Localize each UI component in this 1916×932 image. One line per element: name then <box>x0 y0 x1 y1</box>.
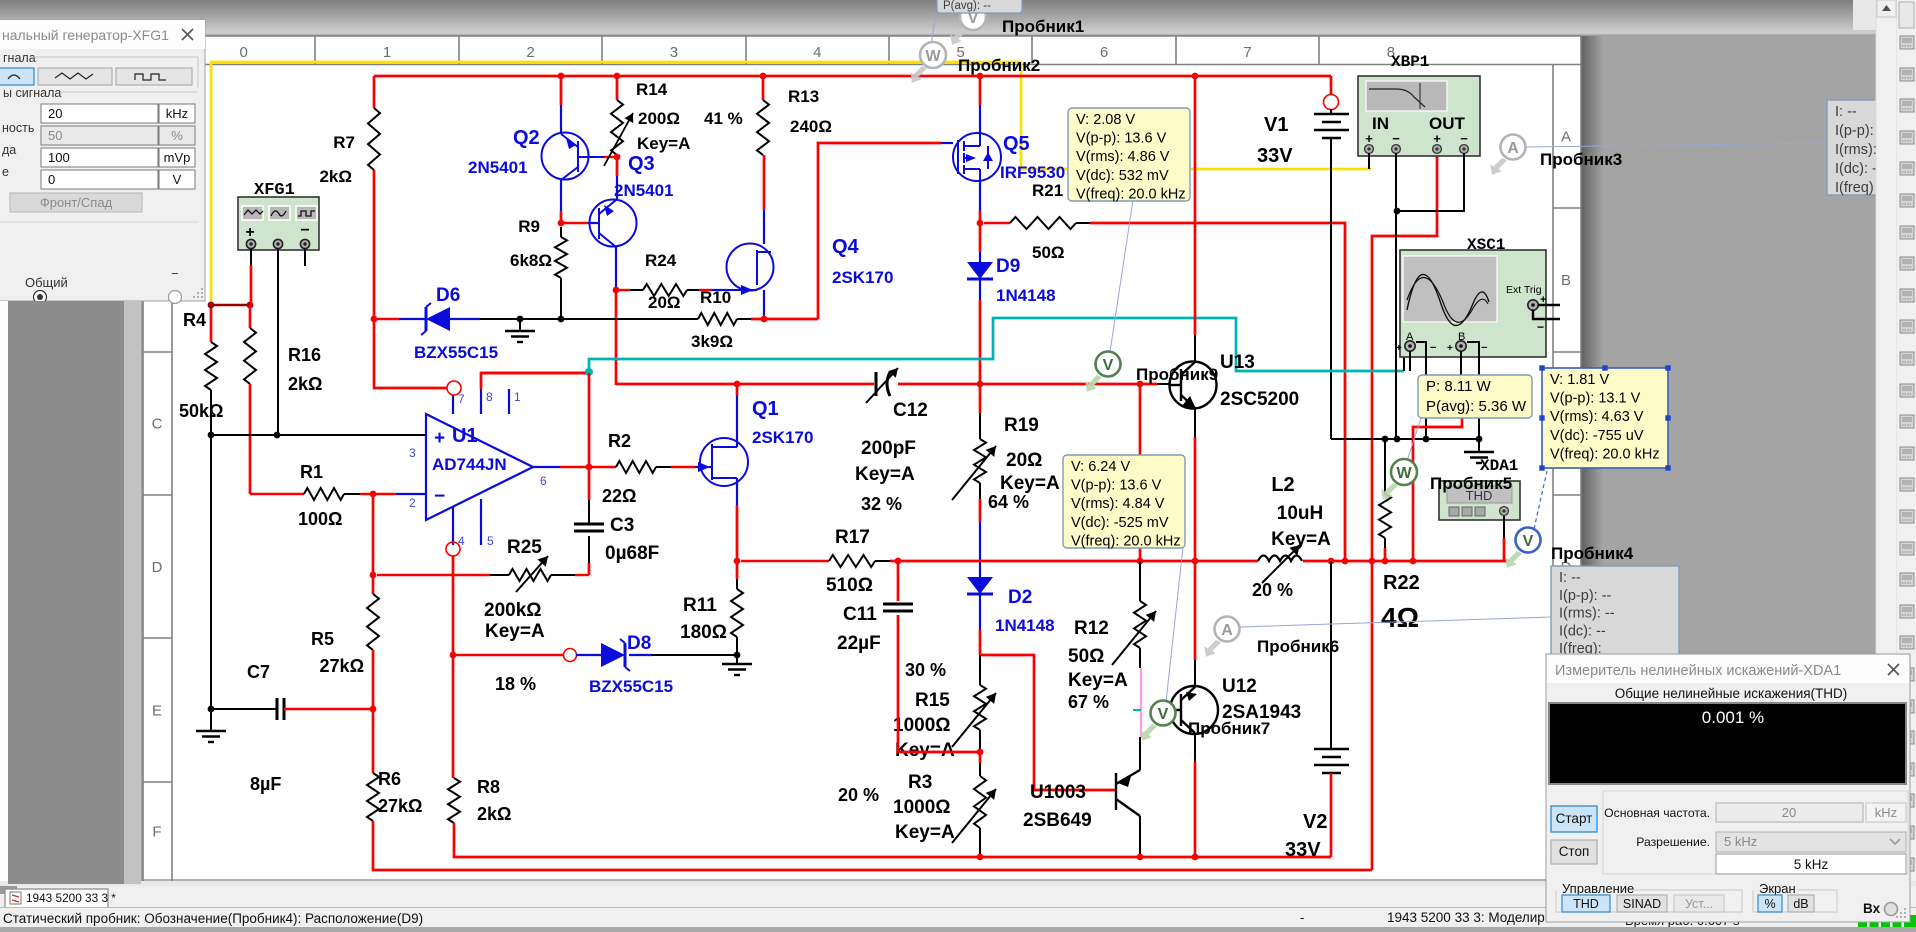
node dots on R17 row <box>1137 558 1144 565</box>
svg-text:0µ68F: 0µ68F <box>605 543 659 564</box>
svg-text:20: 20 <box>48 106 62 121</box>
svg-text:R9: R9 <box>518 217 540 236</box>
svg-text:Key=A: Key=A <box>1068 670 1128 691</box>
svg-text:C: C <box>152 415 163 432</box>
svg-text:Пробник6: Пробник6 <box>1257 637 1339 656</box>
capacitor C7 8uF <box>208 706 215 713</box>
svg-text:5 kHz: 5 kHz <box>1794 857 1829 872</box>
svg-text:mVp: mVp <box>164 150 191 165</box>
svg-text:Измеритель нелинейных искажени: Измеритель нелинейных искажений-XDA1 <box>1555 663 1841 679</box>
battery V1 33V <box>1330 76 1333 95</box>
wire Q2 emitter down to R9 <box>560 180 562 211</box>
svg-text:0: 0 <box>48 172 55 187</box>
leader line probe7 to box <box>1166 547 1183 702</box>
svg-text:2N5401: 2N5401 <box>614 181 674 200</box>
leader line probe9 <box>1110 200 1133 352</box>
svg-text:A: A <box>1221 622 1233 639</box>
svg-text:I: --: I: -- <box>1559 570 1581 586</box>
wire pin2 <box>373 493 396 495</box>
svg-text:−: − <box>1460 131 1468 146</box>
svg-text:V(dc): -525 mV: V(dc): -525 mV <box>1071 515 1169 531</box>
svg-text:Экран: Экран <box>1759 881 1796 896</box>
svg-text:1000Ω: 1000Ω <box>893 797 951 818</box>
pin 7 terminal ring <box>447 381 461 395</box>
leader line probe6 <box>1240 617 1551 627</box>
svg-text:+: + <box>1433 131 1441 146</box>
svg-text:1: 1 <box>383 44 391 61</box>
svg-text:Пробник4: Пробник4 <box>1551 544 1634 563</box>
svg-text:3k9Ω: 3k9Ω <box>691 332 733 351</box>
svg-text:−: − <box>1392 131 1400 146</box>
zener D6 BZX55C15 <box>371 316 378 323</box>
svg-text:U13: U13 <box>1220 352 1255 373</box>
svg-text:3: 3 <box>670 44 678 61</box>
svg-text:R24: R24 <box>645 251 677 270</box>
svg-text:Q5: Q5 <box>1003 133 1030 155</box>
svg-text:V: 1.81 V: V: 1.81 V <box>1550 372 1609 388</box>
svg-text:+: + <box>434 428 445 449</box>
svg-text:8: 8 <box>486 390 493 404</box>
svg-text:да: да <box>2 143 16 157</box>
svg-text:67 %: 67 % <box>1068 692 1109 712</box>
resistor R15 1000 variable <box>979 655 981 685</box>
wire XSC1 B+ red loop <box>1460 351 1462 377</box>
node Q1 drain <box>734 381 741 388</box>
svg-text:V2: V2 <box>1303 811 1327 833</box>
svg-text:A: A <box>1507 140 1519 157</box>
svg-text:R8: R8 <box>477 777 500 797</box>
svg-text:2SC5200: 2SC5200 <box>1220 389 1299 410</box>
svg-text:I(dc): -: I(dc): - <box>1835 161 1877 177</box>
svg-text:D: D <box>152 559 163 576</box>
svg-text:P(avg): --: P(avg): -- <box>943 0 991 12</box>
status meter green bars <box>1858 922 1867 927</box>
svg-text:Q2: Q2 <box>513 127 540 149</box>
transistor U1003 2SB649 <box>1116 770 1140 816</box>
node maroon left <box>208 302 215 309</box>
svg-text:R13: R13 <box>788 87 819 106</box>
probe Probnik6 A <box>1204 640 1221 657</box>
svg-text:B: B <box>1561 272 1571 289</box>
resistor R22 4ohm <box>1384 439 1386 494</box>
probe Probnik2 W <box>910 66 927 83</box>
svg-text:1N4148: 1N4148 <box>995 616 1055 635</box>
wire XFG1 common lead <box>277 249 279 435</box>
svg-text:1943 5200 33 3 *: 1943 5200 33 3 * <box>26 891 116 905</box>
svg-text:18 %: 18 % <box>495 674 536 694</box>
svg-text:2kΩ: 2kΩ <box>319 167 352 186</box>
top ruler column numbers <box>171 36 173 65</box>
node XBP1 out <box>1394 208 1401 215</box>
svg-text:6: 6 <box>1100 44 1108 61</box>
mosfet Q5 IRF9530 <box>953 133 1001 181</box>
svg-text:−: − <box>171 266 179 281</box>
svg-text:33V: 33V <box>1285 839 1321 861</box>
svg-text:R10: R10 <box>700 288 731 307</box>
svg-text:V(p-p): 13.6 V: V(p-p): 13.6 V <box>1071 478 1162 494</box>
svg-text:20 %: 20 % <box>838 785 879 805</box>
resistor R10 <box>561 318 698 320</box>
svg-text:Стоп: Стоп <box>1559 844 1590 859</box>
svg-text:20Ω: 20Ω <box>648 293 681 312</box>
svg-text:Пробник2: Пробник2 <box>958 56 1040 75</box>
svg-text:P: 8.11 W: P: 8.11 W <box>1426 378 1492 395</box>
ground G4 under R11 <box>736 655 738 664</box>
transistor Q1 2SK170 JFET <box>700 438 748 486</box>
svg-text:−: − <box>1537 320 1544 334</box>
svg-text:Key=A: Key=A <box>1000 473 1060 494</box>
svg-text:Key=A: Key=A <box>1271 529 1331 550</box>
node Q2-Q3 <box>558 220 565 227</box>
svg-text:0: 0 <box>240 44 248 61</box>
svg-text:C7: C7 <box>247 662 270 682</box>
vertical scrollbar <box>1876 0 1897 884</box>
svg-text:R12: R12 <box>1074 618 1109 639</box>
node R14 Q2 Q3 <box>614 154 621 161</box>
capacitor C3 0u68F <box>574 523 604 526</box>
probe Probnik4 V selected <box>1505 551 1522 568</box>
wire Q1 source <box>736 478 738 505</box>
zener D8 BZX55C15 <box>450 652 457 659</box>
op-amp U1 AD744JN <box>426 389 533 545</box>
svg-text:−: − <box>1481 342 1487 354</box>
wire U1003 emitter <box>1139 816 1141 857</box>
probe Probnik9 V green <box>1085 375 1102 392</box>
diode D2 1N4148 <box>979 522 981 577</box>
svg-text:Key=A: Key=A <box>855 464 915 485</box>
node Q3 R24 <box>613 287 620 294</box>
probe Probnik3 A <box>1490 158 1507 175</box>
node dots top bus <box>558 73 565 80</box>
svg-text:64 %: 64 % <box>988 492 1029 512</box>
svg-text:7: 7 <box>458 392 465 406</box>
side ruler row letters <box>143 207 172 209</box>
callout box V 6.24 <box>1063 455 1185 548</box>
svg-text:C12: C12 <box>893 400 928 421</box>
wire R4 R16 node <box>210 303 213 342</box>
svg-text:AD744JN: AD744JN <box>432 455 507 474</box>
node R25 row <box>370 572 377 579</box>
svg-text:Пробник1: Пробник1 <box>1002 17 1084 36</box>
wire Q3 node down to row C <box>615 290 618 385</box>
svg-text:Общий: Общий <box>25 275 68 290</box>
svg-text:Пробник7: Пробник7 <box>1188 719 1270 738</box>
wire R7 column <box>373 76 376 108</box>
svg-text:L2: L2 <box>1271 474 1294 496</box>
wire XBP1 OUT- elbow <box>1397 153 1464 211</box>
svg-text:Q1: Q1 <box>752 398 779 420</box>
dialog XFG1 signal generator <box>0 20 205 304</box>
svg-text:C3: C3 <box>610 515 634 536</box>
resistor R14 variable <box>616 76 619 100</box>
svg-text:2kΩ: 2kΩ <box>288 374 322 394</box>
wire Q3 base link <box>563 222 588 224</box>
callout box V 2.08 <box>1068 108 1190 201</box>
svg-text:50Ω: 50Ω <box>1068 646 1104 667</box>
callout box I probe6 <box>1551 566 1679 655</box>
wire pink selected segment <box>1140 668 1142 737</box>
canvas bottom strip <box>0 881 1916 886</box>
svg-text:R2: R2 <box>608 431 631 451</box>
leader line probe5 <box>1407 418 1421 461</box>
svg-text:Вх: Вх <box>1863 901 1881 916</box>
resistor R9 <box>560 227 562 237</box>
node pin3 row left <box>208 432 215 439</box>
wire XSC1 A- to ground <box>1416 342 1426 439</box>
svg-text:510Ω: 510Ω <box>826 575 873 596</box>
svg-text:%: % <box>171 128 183 143</box>
wire Q2 column top <box>560 76 563 105</box>
dialog XDA1 distortion analyzer <box>1546 654 1910 922</box>
svg-text:32 %: 32 % <box>861 494 902 514</box>
svg-text:V(rms): 4.84 V: V(rms): 4.84 V <box>1071 496 1165 512</box>
svg-text:4: 4 <box>813 44 821 61</box>
svg-text:U12: U12 <box>1222 676 1257 697</box>
svg-text:−: − <box>434 486 445 507</box>
wire XSC1 A+ stub <box>1409 351 1411 371</box>
svg-text:ность: ность <box>2 121 34 135</box>
node R15 R3 <box>977 749 984 756</box>
svg-text:D8: D8 <box>627 633 651 654</box>
svg-text:0.001 %: 0.001 % <box>1702 708 1764 727</box>
resistor R1 100 <box>250 493 304 495</box>
wire Q5 drain top <box>979 76 982 105</box>
wire C3 column <box>588 563 591 575</box>
svg-text:V: V <box>173 172 182 187</box>
yellow wire from XFG1 to XBP1 IN+ <box>211 62 1371 303</box>
svg-text:240Ω: 240Ω <box>790 117 832 136</box>
wire U13 base stub <box>1157 383 1170 385</box>
svg-text:R25: R25 <box>507 537 542 558</box>
svg-text:200kΩ: 200kΩ <box>484 600 542 621</box>
node dots ground row <box>1382 436 1389 443</box>
svg-text:5: 5 <box>487 534 494 548</box>
svg-text:+: + <box>245 224 254 241</box>
svg-text:A: A <box>1561 128 1571 145</box>
svg-text:kHz: kHz <box>1875 805 1897 820</box>
node R9 bottom <box>558 316 565 323</box>
svg-text:200pF: 200pF <box>861 438 916 459</box>
node maroon right <box>247 302 254 309</box>
resistor R3 1000 variable <box>979 752 982 763</box>
wire D2 to U1003 base <box>980 655 1116 790</box>
svg-text:2: 2 <box>409 496 416 510</box>
svg-text:2N5401: 2N5401 <box>468 158 528 177</box>
transistor U12 2SA1943 <box>1194 561 1197 660</box>
pin 4 ring <box>446 542 460 556</box>
wire inverting column <box>372 494 375 577</box>
svg-text:V(freq): 20.0 kHz: V(freq): 20.0 kHz <box>1076 186 1186 202</box>
svg-text:5 kHz: 5 kHz <box>1724 834 1757 849</box>
inductor L2 variable <box>1258 556 1302 562</box>
svg-text:Key=A: Key=A <box>895 822 955 843</box>
svg-text:50Ω: 50Ω <box>1032 243 1065 262</box>
wire R4 lower leg <box>210 435 212 709</box>
svg-text:IN: IN <box>1372 114 1389 133</box>
resistor R25 200k variable <box>377 574 490 576</box>
wire XBP1 IN+ stub <box>1368 153 1370 169</box>
svg-text:BZX55C15: BZX55C15 <box>414 343 498 362</box>
svg-text:V(p-p): 13.6 V: V(p-p): 13.6 V <box>1076 131 1167 147</box>
svg-text:Ext Trig: Ext Trig <box>1506 284 1542 296</box>
capacitor C12 variable <box>875 372 878 396</box>
svg-text:41 %: 41 % <box>704 109 743 128</box>
resistor R5 27k <box>372 577 375 594</box>
wire XBP1 IN- long <box>1395 153 1397 439</box>
svg-text:D2: D2 <box>1008 587 1032 608</box>
svg-text:I(rms): --: I(rms): -- <box>1559 606 1615 622</box>
svg-text:R4: R4 <box>183 310 206 330</box>
wire XDA1 lead <box>1503 516 1505 538</box>
wire pin3 row <box>211 434 426 436</box>
svg-text:−: − <box>300 222 309 239</box>
svg-text:R1: R1 <box>300 462 323 482</box>
svg-text:2SK170: 2SK170 <box>832 268 893 287</box>
svg-text:22µF: 22µF <box>837 633 881 654</box>
svg-text:W: W <box>925 48 941 65</box>
wire ground row <box>1331 438 1479 440</box>
svg-text:V: V <box>1103 357 1114 374</box>
svg-text:Разрешение.: Разрешение. <box>1636 835 1710 849</box>
ground G5 right <box>1478 439 1480 452</box>
svg-text:R5: R5 <box>311 629 334 649</box>
svg-text:−: − <box>1430 342 1436 354</box>
battery V2 33V <box>1330 561 1332 749</box>
wire C11 bottom link <box>898 615 980 752</box>
svg-text:Пробник3: Пробник3 <box>1540 150 1622 169</box>
svg-text:V: 6.24 V: V: 6.24 V <box>1071 459 1130 475</box>
svg-text:1N4148: 1N4148 <box>996 286 1056 305</box>
node Q5 R21 D9 <box>977 220 984 227</box>
svg-text:R14: R14 <box>636 80 668 99</box>
svg-text:Key=A: Key=A <box>637 134 690 153</box>
wire R17 row <box>734 558 741 565</box>
svg-text:E: E <box>152 702 162 719</box>
svg-text:R22: R22 <box>1383 572 1420 594</box>
svg-text:kHz: kHz <box>166 106 188 121</box>
wire top +33V red bus <box>374 75 1331 78</box>
wire op-amp V+ pin7 feed <box>374 319 447 388</box>
svg-text:V1: V1 <box>1264 114 1288 136</box>
resistor R13 <box>762 76 765 100</box>
resistor R6 27k <box>372 709 375 773</box>
svg-text:100Ω: 100Ω <box>298 509 342 529</box>
svg-text:V: V <box>1523 533 1534 550</box>
resistor R19 variable <box>979 384 982 413</box>
wire U13 emitter <box>1194 408 1196 437</box>
wire Q2 base to R14 node <box>604 156 617 158</box>
svg-text:Уст...: Уст... <box>1685 897 1713 911</box>
diode D9 1N4148 <box>979 226 982 252</box>
right instruments toolbar <box>1897 0 1916 927</box>
svg-text:I(rms):: I(rms): <box>1835 142 1877 158</box>
node output <box>586 464 593 471</box>
svg-text:V(rms): 4.86 V: V(rms): 4.86 V <box>1076 149 1170 165</box>
wire output node column <box>588 373 591 467</box>
svg-text:ы сигнала: ы сигнала <box>3 86 61 100</box>
wire gate feed x=818 <box>818 143 941 319</box>
wire XBP1 OUT+ loop <box>1372 155 1437 870</box>
probe Probnik1 V <box>950 28 967 45</box>
svg-text:3: 3 <box>409 446 416 460</box>
svg-text:%: % <box>1764 897 1775 911</box>
svg-text:6k8Ω: 6k8Ω <box>510 251 552 270</box>
wire pin4 down <box>452 555 455 655</box>
svg-text:Управление: Управление <box>1562 881 1634 896</box>
svg-text:+: + <box>1396 343 1402 354</box>
schematic sheet white page <box>143 36 1581 881</box>
node Q4 source <box>761 316 768 323</box>
svg-text:Старт: Старт <box>1556 811 1593 826</box>
resistor R8 2k <box>448 778 460 823</box>
svg-text:D9: D9 <box>996 256 1020 277</box>
wire row output left <box>481 372 586 375</box>
status bar <box>0 908 1916 927</box>
svg-text:R15: R15 <box>915 690 950 711</box>
svg-text:2: 2 <box>526 44 534 61</box>
svg-text:-: - <box>1300 910 1304 925</box>
wire U12 emitter bottom <box>1194 733 1196 762</box>
svg-text:V(dc): 532 mV: V(dc): 532 mV <box>1076 168 1169 184</box>
svg-text:22Ω: 22Ω <box>602 486 636 506</box>
node C11 top <box>895 558 902 565</box>
cyan wire oscilloscope A <box>585 368 593 376</box>
svg-text:THD: THD <box>1573 897 1599 911</box>
svg-text:R7: R7 <box>333 133 355 152</box>
left panel <box>0 301 8 881</box>
svg-text:50kΩ: 50kΩ <box>179 401 223 421</box>
svg-text:I: --: I: -- <box>1835 104 1857 120</box>
svg-text:30 %: 30 % <box>905 660 946 680</box>
transistor Q3 2N5401 <box>616 176 618 200</box>
svg-text:33V: 33V <box>1257 145 1293 167</box>
svg-text:V: V <box>1158 706 1169 723</box>
svg-text:XDA1: XDA1 <box>1480 457 1518 475</box>
wire pin8 to output node <box>481 373 586 389</box>
resistor R12 50 variable <box>1139 384 1142 561</box>
svg-text:50: 50 <box>48 128 62 143</box>
svg-text:20: 20 <box>1782 805 1796 820</box>
svg-text:I(dc): --: I(dc): -- <box>1559 623 1606 639</box>
probe Probnik7 V green <box>1140 724 1157 741</box>
svg-text:Общие нелинейные искажения(THD: Общие нелинейные искажения(THD) <box>1615 686 1848 701</box>
callout box V 1.81 selected <box>1542 368 1668 468</box>
leader line probe4 dashed <box>1534 471 1547 529</box>
svg-text:I(p-p): --: I(p-p): -- <box>1559 588 1612 604</box>
resistor R4 50k <box>205 342 217 390</box>
svg-text:I(p-p):: I(p-p): <box>1835 123 1874 139</box>
wire node row C main <box>616 383 874 386</box>
wire U13 collector <box>1194 76 1197 335</box>
node XFG mid lead <box>274 432 281 439</box>
svg-text:R21: R21 <box>1032 181 1063 200</box>
node R12 top <box>1137 381 1144 388</box>
probe Probnik5 W green <box>1381 483 1398 500</box>
wire maroon segment <box>211 304 250 307</box>
svg-text:7: 7 <box>1243 44 1251 61</box>
svg-text:Фронт/Спад: Фронт/Спад <box>40 195 113 210</box>
svg-text:R17: R17 <box>835 527 870 548</box>
node D9 R19 <box>977 381 984 388</box>
svg-text:200Ω: 200Ω <box>638 109 680 128</box>
svg-text:Основная частота.: Основная частота. <box>1604 806 1710 820</box>
leader line probe2 <box>931 13 936 45</box>
transistor U13 2SC5200 <box>1170 362 1217 409</box>
svg-text:C11: C11 <box>843 604 877 625</box>
svg-text:D6: D6 <box>436 285 460 306</box>
resistor R7 <box>368 108 380 170</box>
svg-text:R3: R3 <box>908 772 932 793</box>
